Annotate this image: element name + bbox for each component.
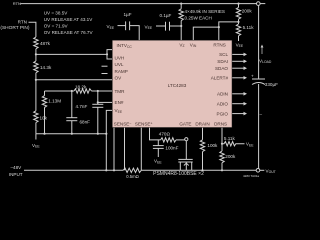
wire PGIO stub [232,113,244,115]
wire SENSE- kelvin riser [124,128,126,171]
capacitor C1 68nF [71,91,73,118]
capacitor C3 1uF (INTVCC bypass) [118,25,126,27]
wire SENSE+ riser [140,128,142,171]
svg-text:DRNS: DRNS [214,121,227,126]
svg-text:PSMN4R8-100BSE ×2: PSMN4R8-100BSE ×2 [153,171,204,177]
wire RTNS riser [219,22,239,40]
svg-text:(SHORT PIN): (SHORT PIN) [0,25,30,31]
wire -48V bottom rail [24,169,123,171]
svg-text:68nF: 68nF [80,120,91,125]
svg-text:+: + [251,74,254,79]
svg-text:200k: 200k [225,154,236,159]
svg-text:OV: OV [115,76,123,81]
svg-text:–: – [260,112,263,117]
svg-text:EN#: EN# [115,100,124,105]
svg-text:4.7nF: 4.7nF [76,104,88,109]
svg-text:VOUT: VOUT [266,168,276,174]
svg-text:RTN: RTN [13,1,21,6]
svg-text:SENSE–: SENSE– [114,121,132,126]
svg-text:1µF: 1µF [124,12,132,17]
wire TMR horizontal W [45,90,75,92]
svg-text:200k: 200k [242,9,253,14]
wire VOUT dash [260,169,265,171]
resistor R11 200k (DRNS to VOUT) [220,151,224,163]
svg-text:–48V: –48V [11,165,23,170]
wire UVL stub [102,65,108,67]
svg-text:100nF: 100nF [165,145,178,150]
wire GATE riser [150,128,161,140]
svg-text:SCL: SCL [219,52,228,57]
wire DRAIN riser [202,128,204,140]
svg-text:1.13M: 1.13M [48,99,61,104]
svg-text:ADIO: ADIO [217,102,229,107]
capacitor C4 0.1uF (VZ bypass) [156,25,166,27]
arrows on right-side pin stubs [244,53,248,116]
svg-text:487k: 487k [40,41,51,46]
outside labels [0,1,278,179]
svg-text:OV = 71.9V: OV = 71.9V [44,24,69,29]
svg-text:INTVCC: INTVCC [117,43,133,49]
resistor R4 18.2k (on W wire) [74,89,92,93]
svg-text:VEE: VEE [115,108,123,114]
svg-text:SENSE+: SENSE+ [135,121,153,126]
wire SDAI stub [232,60,244,62]
resistor R2 14.3k [34,61,38,73]
wire ALERT stub [232,77,244,79]
svg-text:SDAI: SDAI [217,59,228,64]
svg-text:VEE: VEE [154,159,162,165]
svg-text:GATE: GATE [179,121,191,126]
svg-text:RAMP: RAMP [115,69,128,74]
svg-text:RTNS: RTNS [213,42,225,47]
wire EN riser x=97.8 [97,91,99,104]
resistor R6 4x49.9k series (RTN to VZ) [180,4,182,9]
resistor R12 470 Ohm [161,138,176,142]
svg-text:TMR: TMR [115,89,126,94]
wire DRNS riser [221,128,223,152]
svg-text:UV = 38.5V: UV = 38.5V [44,10,69,15]
wire RTN short-pin L-wire [29,22,36,37]
node VOUT terminal [256,169,260,173]
wire VEE pin riser [106,110,112,170]
svg-text:470Ω: 470Ω [159,132,171,137]
svg-text:PGIO: PGIO [217,111,229,116]
svg-text:330µF: 330µF [265,82,278,87]
svg-text:100k: 100k [207,143,218,148]
wire UVH tap [36,50,112,55]
svg-text:ALERT#: ALERT# [211,76,229,81]
svg-text:VZ: VZ [179,42,184,48]
svg-text:OV RELEASE AT 76.7V: OV RELEASE AT 76.7V [44,30,94,35]
svg-text:0.1µF: 0.1µF [160,13,172,18]
transistor Q1 MOSFET PSMN4R8-100BSE x2 [178,158,192,160]
svg-text:4×49.9k IN SERIES: 4×49.9k IN SERIES [185,9,225,14]
svg-text:VEE: VEE [246,142,254,148]
resistor R8 5.11k (RTN divider bottom) [236,24,240,36]
svg-text:UVL: UVL [115,62,124,67]
wire gate node to MOSFET gate [185,141,187,160]
svg-text:UV RELEASE AT 43.1V: UV RELEASE AT 43.1V [44,17,94,22]
svg-text:VEE: VEE [145,24,153,30]
resistor RSENSE 0.5mOhm (in bottom rail) [123,168,141,172]
capacitor C2 4.7nF [92,103,103,105]
svg-text:5.11k: 5.11k [243,25,255,30]
wire VEE bus [36,133,106,135]
resistor R5 1.13M [44,91,46,96]
wire VIN riser [193,27,219,40]
wire RTN terminal dash [260,3,265,5]
svg-text:UVH: UVH [115,55,125,60]
wire RTN top rail [21,3,257,5]
resistor R10 5.11k (DRNS to VEE) [222,142,245,146]
svg-text:4283 TA01a: 4283 TA01a [243,174,259,178]
wire ADIN stub [232,93,244,95]
VLOAD arrow [261,45,264,55]
wire RAMP stub [102,73,108,75]
svg-text:VIN: VIN [190,42,197,48]
svg-text:18.2k: 18.2k [75,85,87,90]
wire SENSE- riser [113,128,115,171]
wire load line [258,5,260,79]
svg-text:VEE: VEE [32,143,40,149]
resistor R1 487k [34,37,38,49]
svg-text:VLOAD: VLOAD [259,58,272,64]
wire SDAO stub [232,67,244,69]
resistor R3 10k [34,111,38,123]
wire SCL stub [232,53,244,55]
capacitor C6 100nF (gate) [157,140,159,146]
svg-text:VEE: VEE [107,24,115,30]
svg-text:5.11k: 5.11k [224,136,236,141]
capacitor C5 330uF load [252,78,265,80]
node gate (open circle) [185,138,188,141]
svg-text:SDAO: SDAO [215,66,228,71]
wire OV tap [36,79,112,81]
node RTN terminal [257,2,261,6]
op-amp: none; IC U1 LTC4283 body [112,40,232,127]
svg-text:10k: 10k [40,116,48,121]
svg-text:LTC4283: LTC4283 [168,83,187,88]
IC pin labels [114,42,229,126]
svg-text:VEE: VEE [236,42,244,48]
resistor R7 200k (RTN divider top) [238,4,240,8]
svg-text:DRAIN: DRAIN [195,121,209,126]
svg-text:INPUT: INPUT [9,172,23,177]
resistor R9 100k [200,140,204,152]
svg-text:0.5mΩ: 0.5mΩ [126,174,138,179]
svg-text:RTN: RTN [18,20,27,25]
svg-text:14.3k: 14.3k [40,65,52,70]
wire ADIO stub [232,103,244,105]
svg-text:ADIN: ADIN [217,92,228,97]
svg-text:0.25W EACH: 0.25W EACH [185,15,212,20]
